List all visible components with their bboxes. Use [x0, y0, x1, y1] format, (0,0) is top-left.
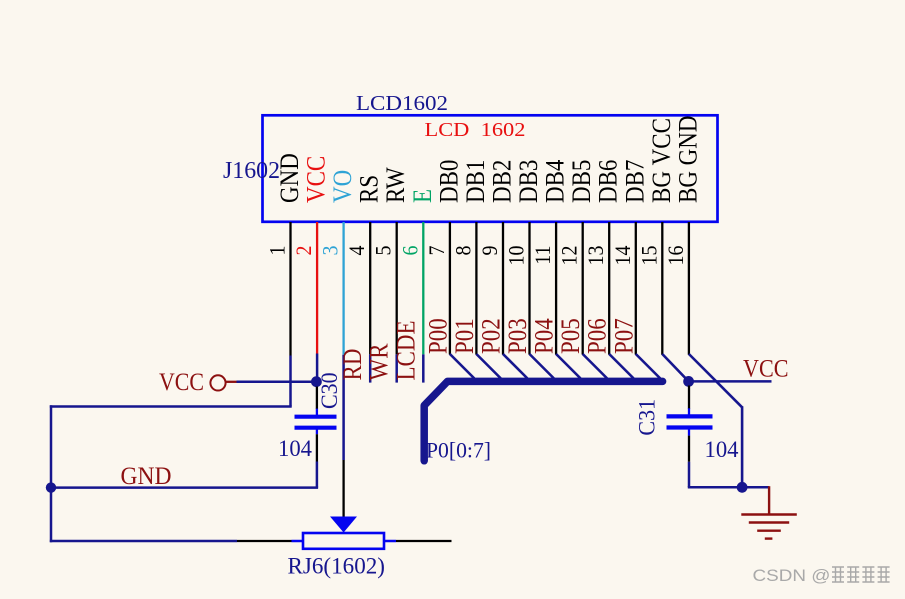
svg-text:5: 5 — [371, 246, 396, 256]
wire pin3 VO black segment to potentiometer wiper — [342, 460, 344, 518]
svg-text:C30: C30 — [317, 372, 343, 409]
svg-text:VO: VO — [329, 170, 358, 203]
svg-text:P07: P07 — [610, 318, 639, 354]
wire pin6 E net stub end — [422, 354, 425, 382]
net label RD — [339, 349, 368, 381]
net label WR — [365, 343, 394, 380]
svg-text:13: 13 — [583, 246, 608, 266]
wire GND horizontal — [50, 486, 318, 489]
wire pin6 E stub — [422, 222, 424, 354]
svg-text:4: 4 — [344, 245, 369, 255]
svg-text:RD: RD — [339, 349, 368, 381]
wire pin4 RS stub — [369, 222, 371, 354]
pin 1 name label GND — [276, 153, 305, 203]
pin number 4 — [344, 245, 369, 255]
wire pin5 RW stub — [396, 222, 398, 354]
svg-text:C31: C31 — [634, 399, 660, 436]
wire pin1 GND net vertical — [289, 356, 292, 407]
power port VCC (left) label — [159, 368, 204, 396]
svg-text:VCC: VCC — [302, 156, 331, 203]
power port VCC (right) label — [743, 354, 789, 382]
wire pin4 RS net stub end — [369, 354, 372, 382]
pin number 3 — [318, 246, 343, 256]
pin 3 name label VO — [329, 170, 358, 203]
pin 6 name label E — [408, 189, 437, 203]
wire bottom rail black to potentiometer — [237, 540, 292, 542]
bus entry pin10 — [530, 354, 555, 379]
pin 4 name label RS — [355, 175, 384, 203]
svg-text:P04: P04 — [530, 318, 559, 354]
svg-text:DB7: DB7 — [621, 160, 650, 203]
svg-text:7: 7 — [424, 246, 449, 256]
svg-text:104: 104 — [705, 437, 739, 463]
wire C31 bottom horizontal to ground node — [688, 486, 742, 489]
svg-text:DB6: DB6 — [594, 160, 623, 203]
pin number 2 — [291, 246, 316, 256]
pin 13 name label DB6 — [594, 160, 623, 203]
svg-text:15: 15 — [636, 246, 661, 266]
wire pin13 DB6 vertical — [608, 222, 610, 355]
capacitor C31 black lead top — [688, 386, 690, 409]
svg-text:P0[0:7]: P0[0:7] — [426, 438, 491, 463]
net label P00 — [424, 318, 453, 354]
pin 5 name label RW — [382, 167, 411, 203]
svg-text:14: 14 — [610, 245, 635, 265]
capacitor C30 top plate — [295, 415, 337, 419]
bus entry pin7 — [450, 354, 475, 379]
capacitor C30 bottom plate — [295, 426, 337, 430]
svg-text:RS: RS — [355, 175, 384, 203]
svg-text:P00: P00 — [424, 318, 453, 354]
pin number 8 — [451, 246, 476, 256]
designator C30 — [317, 372, 343, 409]
wire bottom rail navy — [50, 540, 237, 543]
wire pin2 VCC red stub — [316, 222, 318, 354]
svg-text:DB3: DB3 — [515, 160, 544, 203]
pin 10 name label DB3 — [515, 160, 544, 203]
bus entry pin12 — [583, 354, 608, 379]
bus entry pin14 — [636, 354, 661, 379]
svg-text:VCC: VCC — [743, 354, 789, 382]
potentiometer RJ6 right lead — [384, 540, 396, 543]
net label P02 — [477, 318, 506, 354]
pin 2 name label VCC — [302, 156, 331, 203]
svg-text:10: 10 — [504, 246, 529, 266]
bus entry pin13 — [609, 354, 634, 379]
junction node ground — [737, 482, 748, 493]
pin number 14 — [610, 245, 635, 265]
svg-text:P03: P03 — [504, 318, 533, 354]
svg-text:DB4: DB4 — [541, 160, 570, 203]
svg-text:P06: P06 — [583, 318, 612, 354]
value 104 (C30) — [278, 436, 312, 462]
svg-text:3: 3 — [318, 246, 343, 256]
bus entry pin8 — [476, 354, 501, 379]
net label GND — [121, 462, 172, 490]
svg-text:8: 8 — [451, 246, 476, 256]
capacitor C30 bottom lead blue — [316, 430, 318, 435]
svg-text:GND: GND — [121, 462, 172, 490]
pin number 12 — [557, 246, 582, 266]
svg-text:DB5: DB5 — [568, 160, 597, 203]
pin 14 name label DB7 — [621, 160, 650, 203]
wire pin16 net vertical to ground node — [741, 406, 744, 487]
net label LCDE — [392, 320, 421, 380]
net label P04 — [530, 318, 559, 354]
pin 7 name label DB0 — [435, 160, 464, 203]
svg-text:P02: P02 — [477, 318, 506, 354]
capacitor C31 bottom plate — [667, 425, 713, 429]
wire to ground symbol — [742, 486, 769, 489]
wire pin1 GND net horizontal to left rail — [50, 405, 292, 408]
svg-text:2: 2 — [291, 246, 316, 256]
watermark CJK glyph blocks — [832, 567, 890, 582]
junction node BG VCC — [683, 376, 694, 387]
pin number 6 — [397, 246, 422, 256]
wire pin14 DB7 vertical — [635, 222, 637, 355]
svg-text:DB2: DB2 — [488, 160, 517, 203]
svg-text:11: 11 — [530, 246, 555, 265]
wire left rail vertical — [50, 405, 53, 542]
wire pin7 DB0 vertical — [449, 222, 451, 355]
wire pin15 BG VCC vertical — [661, 222, 663, 355]
wire pin11 DB4 vertical — [555, 222, 557, 355]
svg-text:12: 12 — [557, 246, 582, 266]
pin 15 name label BG VCC — [647, 118, 676, 203]
potentiometer RJ6 wiper arrow — [330, 517, 357, 533]
pin number 11 — [530, 246, 555, 265]
svg-text:RJ6(1602): RJ6(1602) — [288, 554, 386, 579]
connector J1602 body — [263, 115, 718, 222]
potentiometer RJ6 left lead — [292, 540, 304, 543]
wire pin3 VO cyan stub — [342, 222, 344, 355]
pin number 9 — [477, 246, 502, 256]
capacitor C30 bottom black lead — [316, 434, 318, 461]
wire pin3 VO net vertical — [342, 355, 345, 460]
wire C30 to GND rail vertical — [316, 462, 319, 488]
svg-text:LCD1602: LCD1602 — [356, 91, 448, 115]
net label P06 — [583, 318, 612, 354]
net label P01 — [450, 318, 479, 354]
wire pin16 diagonal — [689, 354, 742, 407]
designator C31 — [634, 399, 660, 436]
wire pin5 RW net stub end — [395, 354, 398, 382]
bus entry pin9 — [503, 354, 528, 379]
wire pin15 diagonal to VCC node — [662, 354, 688, 381]
pin 16 name label BG GND — [674, 116, 703, 203]
svg-text:DB1: DB1 — [461, 160, 490, 203]
wire C31 bottom vertical navy — [688, 462, 691, 488]
svg-text:DB0: DB0 — [435, 160, 464, 203]
junction node left rail GND — [46, 482, 56, 492]
pin 9 name label DB2 — [488, 160, 517, 203]
svg-text:16: 16 — [663, 246, 688, 266]
svg-text:GND: GND — [276, 153, 305, 203]
wire pin8 DB1 vertical — [475, 222, 477, 355]
pin number 15 — [636, 246, 661, 266]
potentiometer RJ6 body — [303, 533, 384, 549]
pin number 7 — [424, 246, 449, 256]
pin 11 name label DB4 — [541, 160, 570, 203]
svg-text:LCDE: LCDE — [392, 320, 421, 380]
capacitor C30 top lead blue — [316, 409, 318, 415]
bus entry pin11 — [556, 354, 581, 379]
svg-text:P01: P01 — [450, 318, 479, 354]
svg-text:LCD 1602: LCD 1602 — [425, 119, 526, 141]
svg-text:E: E — [408, 189, 437, 203]
svg-text:CSDN @: CSDN @ — [753, 567, 831, 585]
power port VCC (left) stub — [226, 381, 238, 383]
svg-text:VCC: VCC — [159, 368, 204, 396]
net label P03 — [504, 318, 533, 354]
wire pin12 DB5 vertical — [582, 222, 584, 355]
capacitor C31 top plate — [667, 414, 713, 418]
junction node VCC-C30 — [311, 376, 322, 387]
svg-text:6: 6 — [397, 246, 422, 256]
wire from potentiometer right — [396, 540, 452, 542]
pin number 16 — [663, 246, 688, 266]
net label P05 — [557, 318, 586, 354]
wire pin16 BG GND vertical — [688, 222, 690, 355]
power port VCC (left) circle symbol — [210, 375, 225, 390]
wire VCC right horizontal — [689, 380, 772, 383]
svg-text:1: 1 — [265, 246, 290, 256]
capacitor C30 black lead — [316, 387, 318, 410]
wire pin10 DB3 vertical — [528, 222, 530, 355]
wire VCC left horizontal — [237, 380, 317, 383]
pin 8 name label DB1 — [461, 160, 490, 203]
svg-text:RW: RW — [382, 167, 411, 203]
capacitor C31 bottom lead blue — [688, 430, 690, 436]
wire pin1 GND black stub — [289, 222, 291, 356]
svg-text:P05: P05 — [557, 318, 586, 354]
bus P0[0:7] — [424, 381, 662, 460]
wire pin9 DB2 vertical — [502, 222, 504, 355]
pin number 1 — [265, 246, 290, 256]
pin number 13 — [583, 246, 608, 266]
capacitor C31 top lead blue — [688, 408, 690, 414]
svg-text:BG VCC: BG VCC — [647, 118, 676, 203]
svg-text:9: 9 — [477, 246, 502, 256]
ground symbol — [741, 486, 797, 538]
pin 12 name label DB5 — [568, 160, 597, 203]
pin number 5 — [371, 246, 396, 256]
svg-text:J1602: J1602 — [223, 158, 280, 184]
svg-text:WR: WR — [365, 343, 394, 380]
svg-text:BG GND: BG GND — [674, 116, 703, 203]
capacitor C31 bottom black lead — [688, 436, 690, 462]
wire pin2 VCC net vertical — [316, 354, 319, 382]
net label P07 — [610, 318, 639, 354]
pin number 10 — [504, 246, 529, 266]
value 104 (C31) — [705, 437, 739, 463]
svg-text:104: 104 — [278, 436, 312, 462]
